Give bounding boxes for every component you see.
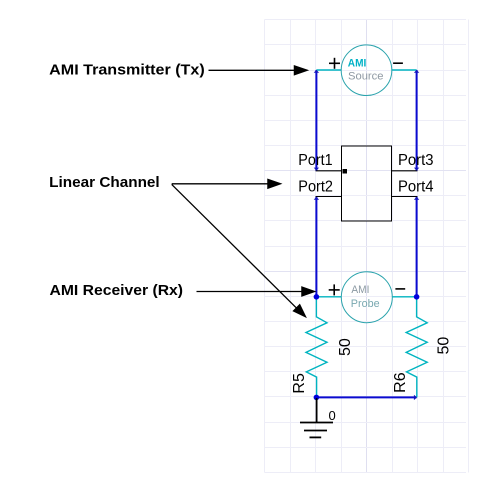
svg-text:AMI: AMI — [348, 57, 367, 69]
svg-text:Linear Channel: Linear Channel — [49, 175, 160, 191]
svg-text:AMI: AMI — [351, 284, 369, 296]
svg-text:Port3: Port3 — [398, 152, 434, 169]
svg-text:0: 0 — [329, 408, 336, 423]
svg-text:AMI Receiver (Rx): AMI Receiver (Rx) — [50, 283, 184, 299]
svg-text:Port4: Port4 — [398, 178, 434, 195]
svg-text:50: 50 — [337, 338, 354, 356]
svg-text:Probe: Probe — [351, 298, 380, 310]
svg-text:Source: Source — [348, 71, 384, 83]
svg-text:50: 50 — [436, 337, 453, 355]
svg-text:R6: R6 — [392, 372, 409, 393]
svg-text:Port2: Port2 — [298, 178, 333, 195]
svg-text:R5: R5 — [291, 373, 308, 394]
svg-text:Port1: Port1 — [298, 152, 332, 169]
svg-text:AMI Transmitter (Tx): AMI Transmitter (Tx) — [49, 63, 205, 79]
